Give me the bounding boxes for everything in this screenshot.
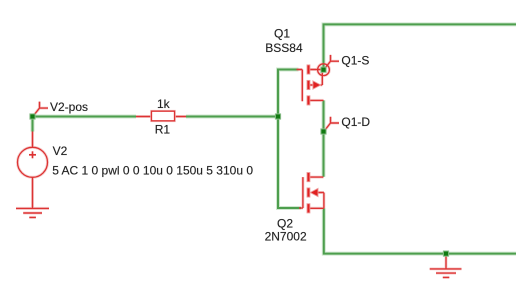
svg-text:2N7002: 2N7002 bbox=[265, 230, 307, 244]
svg-text:R1: R1 bbox=[155, 123, 171, 137]
svg-text:Q1-S: Q1-S bbox=[341, 54, 369, 68]
svg-text:V2: V2 bbox=[53, 144, 68, 158]
svg-text:Q1-D: Q1-D bbox=[341, 115, 370, 129]
svg-text:Q2: Q2 bbox=[277, 217, 293, 231]
svg-text:V2-pos: V2-pos bbox=[50, 100, 88, 114]
svg-text:5 AC 1 0 pwl 0 0 10u 0 150u 5: 5 AC 1 0 pwl 0 0 10u 0 150u 5 310u 0 bbox=[52, 164, 253, 178]
svg-text:1k: 1k bbox=[157, 97, 171, 111]
svg-text:BSS84: BSS84 bbox=[265, 41, 303, 55]
svg-text:Q1: Q1 bbox=[274, 27, 290, 41]
